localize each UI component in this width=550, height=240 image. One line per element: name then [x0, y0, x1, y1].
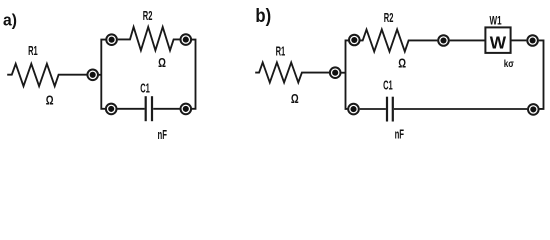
- svg-text:kσ: kσ: [504, 57, 515, 69]
- svg-text:W1: W1: [489, 15, 501, 28]
- svg-text:a): a): [3, 11, 17, 30]
- svg-text:nF: nF: [157, 129, 166, 142]
- svg-text:R2: R2: [384, 11, 394, 26]
- svg-text:W: W: [490, 32, 507, 52]
- svg-text:Ω: Ω: [291, 93, 299, 106]
- svg-text:R1: R1: [276, 45, 286, 60]
- svg-text:R2: R2: [143, 9, 153, 24]
- svg-text:C1: C1: [140, 81, 150, 96]
- svg-text:Ω: Ω: [46, 94, 54, 107]
- svg-text:R1: R1: [28, 44, 38, 59]
- svg-text:Ω: Ω: [158, 57, 166, 70]
- svg-text:nF: nF: [395, 129, 404, 142]
- svg-text:C1: C1: [383, 78, 393, 93]
- svg-text:Ω: Ω: [398, 58, 406, 71]
- svg-text:b): b): [255, 5, 271, 26]
